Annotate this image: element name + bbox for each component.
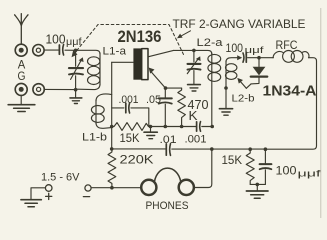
svg-text:.001: .001 bbox=[119, 94, 139, 106]
RFC coil bbox=[273, 52, 283, 58]
jack G bbox=[15, 83, 27, 95]
node L2-b bottom bbox=[224, 86, 228, 90]
resistor R1 15K bbox=[112, 123, 151, 131]
ground jack G bbox=[8, 96, 35, 112]
phones bbox=[141, 168, 194, 195]
svg-text:μμf: μμf bbox=[298, 169, 322, 180]
ground VC2 bbox=[188, 85, 201, 91]
diode 1N34-A bbox=[246, 58, 267, 89]
svg-text:μμf: μμf bbox=[66, 37, 82, 48]
battery plus wire to ground bbox=[31, 188, 45, 199]
capacitor C1 100uuf bbox=[59, 45, 63, 56]
resistor 470K bbox=[178, 88, 186, 126]
antenna bbox=[15, 14, 28, 44]
node diode top bbox=[257, 56, 261, 60]
wire phones to riser bbox=[194, 149, 212, 187]
label 100uuf third bbox=[276, 164, 322, 180]
wire C1 to L1-a top bbox=[65, 50, 100, 54]
wire minus to phones bbox=[91, 187, 141, 189]
lower bus left of .01 bbox=[112, 148, 166, 150]
right side wire bbox=[266, 58, 317, 150]
svg-text:A: A bbox=[18, 60, 26, 72]
node VC2 top bbox=[192, 49, 196, 53]
jack A bbox=[15, 44, 27, 56]
svg-text:1N34-A: 1N34-A bbox=[263, 83, 317, 100]
svg-text:μμf: μμf bbox=[245, 45, 265, 55]
capacitor .05 bbox=[159, 88, 172, 126]
node bus right bbox=[210, 125, 214, 129]
label 470 K bbox=[188, 98, 209, 123]
plug G bbox=[33, 84, 44, 95]
svg-text:L2-a: L2-a bbox=[197, 37, 224, 49]
collector lead bbox=[148, 50, 174, 56]
node top of VC1 bbox=[74, 49, 78, 53]
lower bus right of .01 bbox=[172, 148, 266, 150]
base vertical wire bbox=[111, 62, 113, 149]
ground L2-b bbox=[219, 88, 232, 115]
svg-text:.01: .01 bbox=[160, 134, 177, 146]
svg-text:15K: 15K bbox=[120, 133, 140, 145]
resistor 220K bbox=[108, 149, 116, 188]
svg-text:2N136: 2N136 bbox=[118, 27, 162, 46]
capacitor .001 second bbox=[197, 122, 213, 132]
coil L2-b bbox=[226, 58, 238, 88]
node 220K bottom bbox=[110, 186, 114, 190]
page edge artifact bbox=[320, 8, 322, 218]
coil L1-b bbox=[91, 94, 111, 128]
ground detector bbox=[246, 184, 268, 198]
node 15K2 top bbox=[248, 147, 252, 151]
resistor 15K second bbox=[246, 149, 254, 184]
node .05 bottom bbox=[164, 125, 168, 129]
label 100uuf detector bbox=[226, 43, 265, 55]
base lead bbox=[112, 61, 134, 63]
svg-text:100: 100 bbox=[46, 32, 66, 47]
dashed gang line bbox=[74, 25, 185, 57]
variable capacitor VC2 bbox=[187, 50, 200, 84]
svg-text:1.5 - 6V: 1.5 - 6V bbox=[41, 171, 80, 183]
capacitor .001 branch over 15K bbox=[112, 103, 149, 127]
emitter lead with arrow bbox=[149, 68, 166, 89]
ground battery bbox=[21, 200, 41, 207]
node 15K left bbox=[110, 125, 114, 129]
node 470K bottom bbox=[180, 125, 184, 129]
arrowhead on L2-b top wire bbox=[237, 55, 242, 60]
node emitter bbox=[164, 86, 168, 90]
transistor Q1 2N136 bbox=[133, 48, 148, 79]
wire plug A to C1 bbox=[44, 49, 58, 51]
node cap3 top bbox=[264, 147, 268, 151]
label 100uuf C1 bbox=[46, 32, 82, 49]
tap arrow into L2-b bbox=[237, 78, 246, 88]
variable capacitor VC1 bbox=[69, 50, 84, 90]
arrowhead gang line at VC1 bbox=[72, 50, 78, 57]
svg-text:15K: 15K bbox=[222, 153, 243, 167]
wire emitter to 470K bbox=[166, 87, 182, 89]
node base bottom bbox=[110, 147, 114, 151]
ground R1 bbox=[144, 127, 157, 139]
bottom join wire bbox=[250, 183, 265, 185]
node 15K right bbox=[149, 125, 153, 129]
wire plug G to junction bbox=[44, 88, 74, 90]
coil L2-a bbox=[208, 53, 221, 127]
node phones riser bbox=[210, 147, 214, 151]
battery minus terminal bbox=[83, 185, 91, 197]
ground VC1 bbox=[70, 90, 82, 104]
svg-text:K: K bbox=[189, 109, 199, 123]
pointer arrow from label bbox=[177, 31, 191, 39]
bus wire 15K to .001 bbox=[151, 126, 197, 128]
svg-text:100: 100 bbox=[226, 43, 244, 55]
capacitor 100uuf third bbox=[260, 149, 272, 184]
node VC1 bottom junction bbox=[74, 88, 78, 92]
svg-text:L2-b: L2-b bbox=[232, 94, 256, 105]
plug A bbox=[33, 45, 44, 56]
svg-text:.001: .001 bbox=[185, 134, 207, 146]
svg-text:100: 100 bbox=[276, 164, 297, 178]
top wire tank 2 bbox=[174, 50, 212, 54]
svg-text:220K: 220K bbox=[120, 155, 154, 167]
svg-text:G: G bbox=[18, 71, 26, 83]
svg-text:PHONES: PHONES bbox=[146, 200, 189, 212]
capacitor .01 bbox=[166, 144, 170, 156]
svg-text:TRF 2-GANG VARIABLE: TRF 2-GANG VARIABLE bbox=[173, 19, 306, 31]
battery plus terminal bbox=[45, 185, 52, 200]
svg-text:L1-a: L1-a bbox=[103, 46, 127, 58]
capacitor 100uuf detector bbox=[243, 53, 273, 63]
svg-text:RFC: RFC bbox=[276, 38, 298, 52]
svg-text:L1-b: L1-b bbox=[82, 132, 107, 144]
coil L1-a bbox=[77, 53, 100, 90]
node filter bottom bbox=[255, 183, 259, 187]
